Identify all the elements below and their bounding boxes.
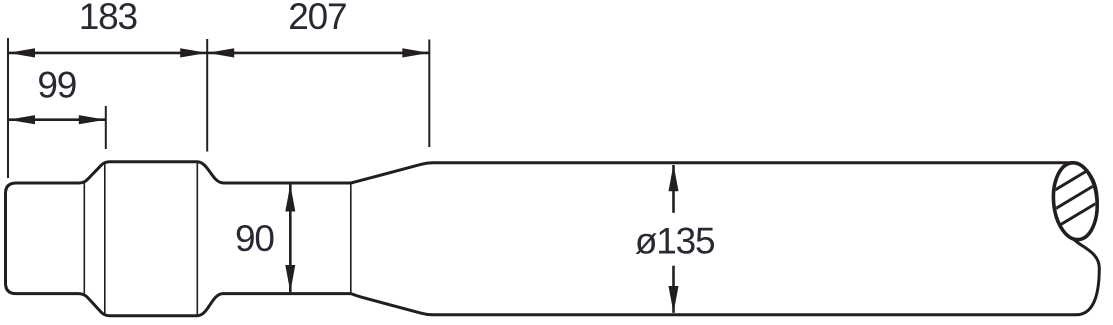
svg-text:90: 90 [235, 218, 274, 259]
svg-text:99: 99 [37, 65, 76, 106]
svg-text:207: 207 [288, 0, 346, 37]
svg-text:ø135: ø135 [635, 221, 715, 262]
svg-text:183: 183 [79, 0, 137, 37]
